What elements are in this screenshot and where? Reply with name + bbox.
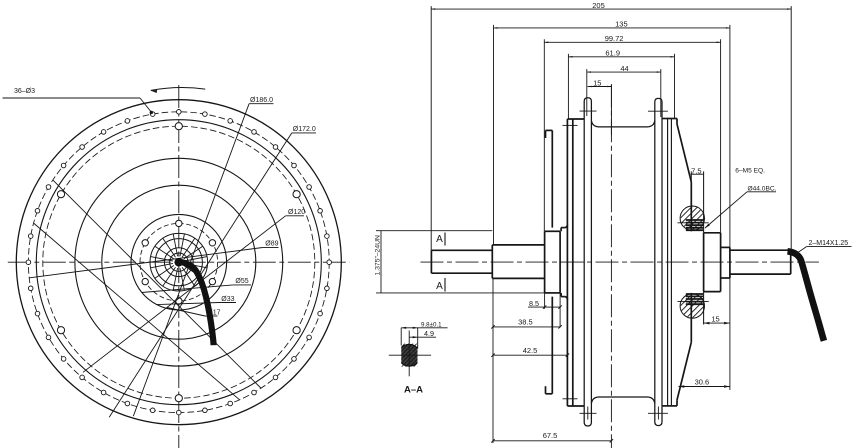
svg-text:44: 44 (620, 64, 628, 73)
svg-text:A: A (436, 234, 443, 245)
dim 135 (494, 27, 730, 29)
svg-text:Ø186.0: Ø186.0 (250, 97, 273, 104)
axle middle section (491, 245, 493, 279)
dim 38.5 (493, 326, 560, 328)
right spacer (729, 247, 731, 278)
centerline vertical (front view) (178, 85, 180, 448)
rim bed top (598, 126, 648, 128)
rim spoke tab right (tall pill) (655, 98, 662, 425)
axle circle (170, 253, 188, 271)
rim inner circle (36, 120, 321, 405)
rim outer circle D186.0 (16, 100, 341, 425)
M5 screw head bottom (hatched circle) (667, 281, 717, 331)
svg-text:8.5: 8.5 (529, 299, 539, 308)
rotation direction arrow (151, 87, 205, 90)
spoke line / leader D186.0 (133, 104, 249, 417)
dim 61.9 (568, 56, 674, 58)
svg-text:99.72: 99.72 (605, 34, 624, 43)
left boss step top (561, 227, 564, 229)
svg-text:36–Ø3: 36–Ø3 (14, 88, 35, 95)
bolt circle D44 (dashed) (140, 223, 218, 301)
rim spoke tab left (tall pill) (584, 98, 591, 426)
dim 15 top (588, 86, 612, 88)
svg-text:135: 135 (615, 20, 628, 29)
left boss step bottom (561, 296, 564, 298)
left cover wall (551, 130, 553, 227)
svg-text:Ø33: Ø33 (221, 296, 234, 303)
flange hole pitch circle (dashed) (43, 126, 315, 398)
svg-text:205: 205 (592, 1, 605, 10)
left bearing boss (544, 231, 546, 293)
left flange hole centermark bottom (563, 398, 578, 400)
centerline horizontal (section view axle) (421, 261, 819, 263)
hub circle D55 (131, 214, 227, 310)
left tab fillets to rim bed (591, 121, 598, 127)
spoke line / leader D89 (30, 248, 263, 278)
spoke line / leader D173.0 (109, 133, 292, 417)
svg-text:6–M5 EQ.: 6–M5 EQ. (735, 168, 765, 175)
svg-text:4.9: 4.9 (424, 329, 434, 338)
svg-text:Ø89: Ø89 (265, 240, 278, 247)
svg-text:42.5: 42.5 (523, 346, 538, 355)
svg-text:67.5: 67.5 (543, 431, 558, 440)
centerline horizontal (front view) (8, 261, 350, 263)
hub starburst rays (180, 234, 184, 256)
svg-text:Ø120: Ø120 (288, 209, 305, 216)
svg-text:15: 15 (711, 315, 719, 324)
svg-text:1.375”–24UN: 1.375”–24UN (375, 235, 382, 276)
hub circle (155, 239, 202, 286)
svg-text:38.5: 38.5 (518, 318, 533, 327)
centerline vertical (section view) (610, 84, 612, 448)
svg-text:Ø172.0: Ø172.0 (293, 126, 316, 133)
rim bed bottom (598, 396, 648, 398)
6 flange holes (175, 123, 182, 130)
M5 screw head top (hatched circle) (667, 193, 717, 243)
cover circle D120 (75, 158, 283, 366)
dim 44 (587, 71, 661, 73)
right cover dish profile top (676, 119, 678, 125)
left spoke flange cylinder (566, 119, 568, 406)
hub circle D17 (164, 248, 193, 277)
dim 15 bottom (704, 322, 730, 324)
spoke line / leader D33 (157, 303, 219, 305)
right cover plate (703, 171, 705, 232)
left cover lip top (546, 129, 553, 131)
M5 screw threads bottom (686, 293, 703, 295)
spoke line / leader D120 (83, 216, 286, 372)
spoke line / leader D17 (167, 308, 205, 317)
6 bolt holes M5 (176, 220, 182, 226)
M5 screw threads top (686, 219, 703, 221)
spoke line / leader D55 (142, 285, 233, 293)
rim right wall (667, 119, 669, 406)
cover circle D89 (102, 185, 256, 339)
detail section A-A axle cross-section (381, 327, 437, 383)
svg-text:Ø44.0BC.: Ø44.0BC. (748, 185, 777, 192)
dim 99.72 (544, 41, 720, 43)
axle left threaded section (430, 250, 432, 273)
svg-text:2–M14X1.25: 2–M14X1.25 (809, 240, 849, 247)
motor cable (section view) (788, 251, 824, 340)
rim right shoulder top (662, 118, 677, 120)
M5 screw centermark top (678, 222, 709, 224)
svg-text:61.9: 61.9 (605, 49, 620, 58)
left flange hole centermark top (563, 124, 578, 126)
rim right shoulder bottom (662, 405, 677, 407)
svg-text:Ø55: Ø55 (235, 278, 248, 285)
left cover lip bottom (546, 393, 553, 395)
svg-text:30.6: 30.6 (695, 377, 710, 386)
hub circle D33 (150, 233, 208, 291)
svg-text:A: A (436, 281, 443, 292)
A-A centermarks (389, 354, 431, 356)
spoke hole pitch circle D173.0 (dashed) (28, 112, 329, 413)
spoke line upper-left to lower-right (53, 180, 261, 388)
spoke line left to lower-right (34, 223, 240, 400)
dim 30.6 (679, 386, 730, 388)
dim 42.5 (493, 354, 567, 356)
dim 67.5 (493, 440, 611, 442)
left tab hole centermarks (580, 110, 597, 112)
right tab hole centermarks (648, 110, 668, 112)
M5 screw centermark bottom (678, 300, 709, 302)
right tab fillets to rim bed (648, 121, 655, 127)
motor phase cable (front view) (175, 258, 184, 267)
svg-text:A–A: A–A (404, 385, 423, 396)
36 spoke holes D3 (177, 110, 182, 115)
svg-text:15: 15 (593, 78, 601, 87)
axle right threaded section (730, 249, 791, 251)
right cover dish profile bottom (676, 400, 678, 406)
dim 205 overall (431, 8, 791, 10)
svg-text:9.8±0.1: 9.8±0.1 (421, 321, 442, 328)
